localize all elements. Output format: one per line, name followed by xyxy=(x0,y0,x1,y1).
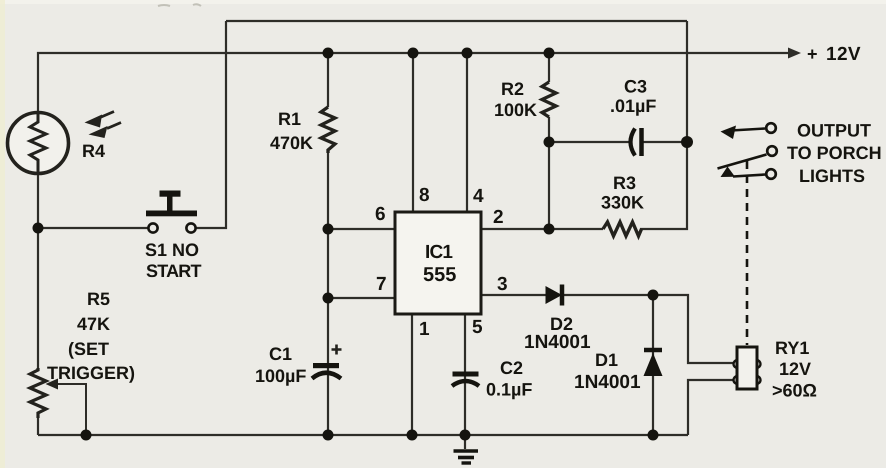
svg-text:D2: D2 xyxy=(550,314,573,334)
relay RY1 coil xyxy=(734,347,761,389)
wire ground stub xyxy=(464,435,466,449)
node R2 top xyxy=(544,48,555,59)
ground xyxy=(454,451,479,463)
wire pin 8 vertical xyxy=(412,53,414,212)
output switch contacts xyxy=(718,123,777,179)
wire C3 left segment xyxy=(549,141,630,143)
node R2-C3 xyxy=(544,137,555,148)
svg-text:R1: R1 xyxy=(278,109,301,129)
node pin1 bottom xyxy=(407,430,418,441)
scan artifact smudges xyxy=(158,4,201,6)
svg-text:C3: C3 xyxy=(624,77,647,97)
svg-text:.01µF: .01µF xyxy=(610,96,656,116)
switch top fixed contact xyxy=(721,126,737,140)
svg-text:+: + xyxy=(807,44,818,64)
svg-text:>60Ω: >60Ω xyxy=(772,381,817,401)
svg-text:5: 5 xyxy=(472,317,483,338)
node C1 bottom xyxy=(323,430,334,441)
resistor R1 xyxy=(321,107,335,153)
svg-text:12V: 12V xyxy=(826,44,861,65)
node R5 wiper bottom xyxy=(81,430,92,441)
svg-text:1: 1 xyxy=(419,319,430,340)
svg-text:3: 3 xyxy=(497,274,508,295)
wire pin 3 to D2 xyxy=(481,294,546,296)
node R2 pin2 xyxy=(544,224,555,235)
svg-text:C1: C1 xyxy=(269,344,292,364)
svg-text:LIGHTS: LIGHTS xyxy=(799,166,865,186)
svg-text:C2: C2 xyxy=(500,358,523,378)
capacitor C1 xyxy=(312,345,342,379)
wire S1 right vertical xyxy=(196,21,226,228)
node pin8 top xyxy=(408,48,419,59)
wire D2 to relay corner xyxy=(562,295,737,363)
node R1 top xyxy=(323,48,334,59)
diode D1 xyxy=(644,350,663,376)
resistor R2 xyxy=(542,82,556,117)
wire R2 bottom to pin2 line xyxy=(548,117,550,229)
svg-text:2: 2 xyxy=(493,207,504,228)
svg-text:555: 555 xyxy=(423,264,456,286)
svg-text:470K: 470K xyxy=(270,133,313,153)
node S1 branch xyxy=(33,223,44,234)
svg-text:330K: 330K xyxy=(601,193,644,213)
svg-text:8: 8 xyxy=(419,185,430,206)
wire R5 bottom stub xyxy=(37,418,39,435)
wire R2 top stub xyxy=(548,53,550,82)
wire R1 branch vertical xyxy=(327,53,329,107)
svg-text:R5: R5 xyxy=(87,289,110,309)
svg-text:1N4001: 1N4001 xyxy=(524,332,591,353)
wire S1 left branch xyxy=(38,227,148,229)
wire +12V rail horizontal xyxy=(38,53,791,112)
wire pin 7 xyxy=(328,297,395,299)
diode D2 xyxy=(546,285,563,306)
svg-text:4: 4 xyxy=(473,186,484,207)
wire pin 1 vertical xyxy=(411,314,413,435)
node C3 right xyxy=(681,136,693,148)
wire pin 6 xyxy=(328,228,395,230)
node pin6 xyxy=(323,224,334,235)
svg-text:RY1: RY1 xyxy=(775,338,809,358)
svg-text:S1 NO: S1 NO xyxy=(145,240,199,260)
switch pole arm xyxy=(767,146,777,156)
svg-text:100µF: 100µF xyxy=(255,366,306,386)
photoresistor R4 xyxy=(8,113,69,174)
svg-text:6: 6 xyxy=(375,204,386,225)
resistor R3 xyxy=(603,222,642,236)
node pin7 xyxy=(323,293,334,304)
pushbutton S1 xyxy=(146,191,197,233)
svg-text:12V: 12V xyxy=(779,359,811,379)
svg-text:7: 7 xyxy=(376,274,387,295)
svg-text:IC1: IC1 xyxy=(425,242,453,263)
wire pin 4 vertical xyxy=(466,53,468,212)
wire left vertical R4 to R5 xyxy=(37,174,39,368)
R4 light arrow 1 xyxy=(85,112,115,128)
svg-text:R4: R4 xyxy=(82,141,105,161)
wire top rail xyxy=(226,20,687,22)
svg-text:100K: 100K xyxy=(494,100,537,120)
wire pin 2 to R3 xyxy=(481,228,603,230)
wire pin 5 vertical through C2 xyxy=(464,314,466,435)
node ground xyxy=(460,430,471,441)
R4 light arrow 2 xyxy=(89,123,122,139)
svg-text:47K: 47K xyxy=(77,314,110,334)
svg-text:0.1µF: 0.1µF xyxy=(486,380,532,400)
+12V arrowhead xyxy=(788,48,801,59)
svg-text:START: START xyxy=(146,261,201,281)
wire C3 right segment xyxy=(643,141,687,143)
svg-text:R2: R2 xyxy=(501,79,524,99)
svg-text:D1: D1 xyxy=(595,350,618,370)
wire R1 to bottom rail through C1 xyxy=(327,152,329,435)
svg-text:TO PORCH: TO PORCH xyxy=(787,143,882,163)
svg-text:(SET: (SET xyxy=(68,339,109,359)
node pin4 top xyxy=(462,48,473,59)
wire R3 to right vertical xyxy=(640,21,687,229)
op IC1 555 box xyxy=(395,212,481,314)
switch bottom fixed contact xyxy=(721,167,736,178)
svg-text:TRIGGER): TRIGGER) xyxy=(47,363,135,383)
R5 wiper xyxy=(46,379,87,436)
capacitor C2 xyxy=(452,372,479,387)
dashed actuator line xyxy=(746,161,749,345)
node D1 bottom xyxy=(648,430,659,441)
svg-text:OUTPUT: OUTPUT xyxy=(797,121,871,141)
wire D1 vertical xyxy=(652,295,654,435)
svg-text:R3: R3 xyxy=(613,173,636,193)
wire bottom rail xyxy=(38,434,688,436)
node D1 top xyxy=(648,290,659,301)
svg-text:1N4001: 1N4001 xyxy=(574,372,641,393)
potentiometer R5 xyxy=(30,368,46,418)
capacitor C3 xyxy=(631,128,642,156)
wire relay return to bottom rail xyxy=(688,380,737,435)
